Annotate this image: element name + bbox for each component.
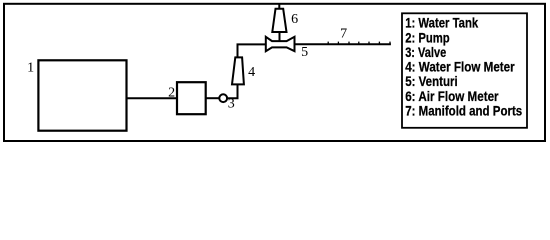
legend line 1 water tank xyxy=(405,15,478,31)
svg-text:2: Pump: 2: Pump xyxy=(405,29,450,45)
manifold port tick 1 xyxy=(327,42,329,45)
svg-text:7: 7 xyxy=(340,27,347,42)
legend line 6 air flow meter xyxy=(405,88,499,104)
legend line 3 valve xyxy=(405,44,446,60)
manifold port tick 6 xyxy=(378,42,380,45)
manifold port tick 5 xyxy=(368,42,370,45)
wire tank to pump xyxy=(127,97,178,99)
label 6 xyxy=(291,12,298,27)
pump 2 xyxy=(177,82,206,114)
legend line 4 water flow meter xyxy=(405,59,515,75)
svg-text:4: 4 xyxy=(248,65,255,80)
svg-text:1: Water Tank: 1: Water Tank xyxy=(405,15,478,31)
manifold port tick 7 end hook xyxy=(389,42,391,45)
svg-text:2: 2 xyxy=(168,86,175,101)
wire valve to riser xyxy=(227,84,237,98)
label 5 xyxy=(301,45,308,60)
wire air flow meter vent to frame xyxy=(278,4,280,9)
svg-text:3: Valve: 3: Valve xyxy=(405,44,446,60)
svg-text:5: 5 xyxy=(301,45,308,60)
label 3 xyxy=(228,97,235,112)
legend box xyxy=(402,13,527,128)
svg-text:6: 6 xyxy=(291,12,298,27)
wire venturi throat to air flow meter xyxy=(279,32,281,41)
water flow meter 4 xyxy=(232,57,244,84)
air flow meter 6 xyxy=(272,9,286,32)
wire pump to valve xyxy=(206,97,220,99)
svg-text:4: Water Flow Meter: 4: Water Flow Meter xyxy=(405,59,515,75)
manifold 7 wire xyxy=(294,43,391,45)
venturi 5 xyxy=(266,37,295,51)
svg-text:5: Venturi: 5: Venturi xyxy=(405,73,458,89)
legend line 7 manifold and ports xyxy=(405,103,522,119)
legend line 5 venturi xyxy=(405,73,458,89)
svg-text:6: Air Flow Meter: 6: Air Flow Meter xyxy=(405,88,499,104)
label 4 xyxy=(248,65,255,80)
label 7 xyxy=(340,27,347,42)
label 2 xyxy=(168,86,175,101)
wire flowmeter top elbow to venturi xyxy=(238,44,266,57)
manifold port tick 4 xyxy=(358,42,360,45)
manifold port tick 2 xyxy=(337,42,339,45)
water tank 1 xyxy=(38,60,126,130)
valve 3 xyxy=(219,94,227,102)
legend line 2 pump xyxy=(405,29,450,45)
manifold port tick 3 xyxy=(348,42,350,45)
outer frame xyxy=(4,4,545,141)
svg-text:1: 1 xyxy=(27,60,34,75)
svg-text:7: Manifold and Ports: 7: Manifold and Ports xyxy=(405,103,522,119)
label 1 xyxy=(27,60,34,75)
